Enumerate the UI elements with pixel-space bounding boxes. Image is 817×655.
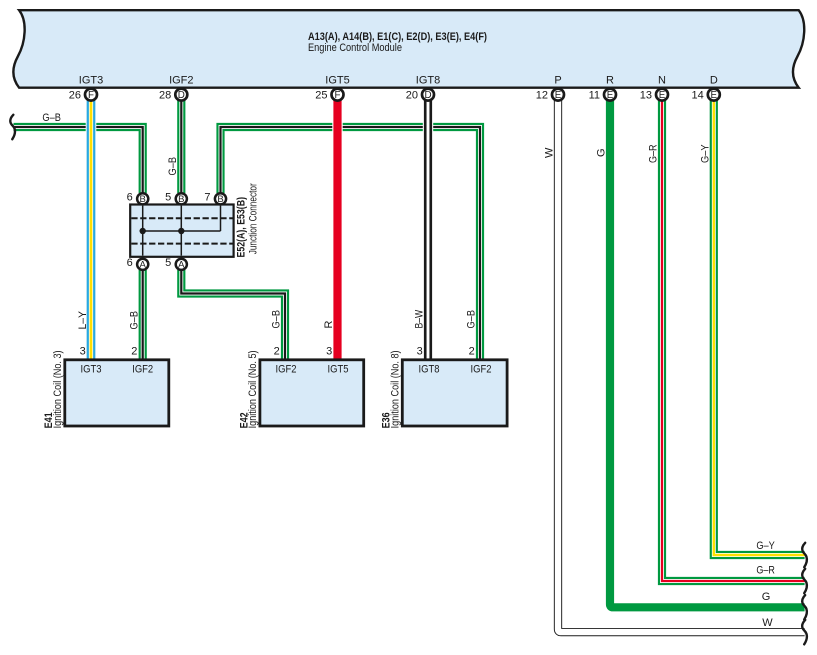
svg-text:G–B: G–B (466, 310, 478, 329)
svg-text:G: G (596, 148, 608, 157)
svg-text:IGT5: IGT5 (328, 364, 349, 376)
svg-text:14: 14 (692, 89, 704, 101)
svg-text:IGF2: IGF2 (169, 75, 193, 87)
svg-text:A: A (140, 260, 147, 271)
svg-text:E: E (555, 90, 562, 101)
svg-text:G: G (762, 591, 771, 603)
svg-text:G–R: G–R (756, 564, 775, 576)
svg-text:B–W: B–W (414, 309, 426, 328)
svg-text:28: 28 (159, 89, 171, 101)
svg-text:W: W (762, 617, 773, 629)
svg-text:2: 2 (469, 346, 475, 358)
svg-text:N: N (658, 75, 666, 87)
svg-text:E: E (607, 90, 614, 101)
svg-text:12: 12 (536, 89, 548, 101)
svg-text:A: A (178, 260, 185, 271)
svg-text:7: 7 (204, 192, 210, 204)
svg-text:Ignition Coil (No. 3): Ignition Coil (No. 3) (52, 350, 64, 428)
svg-text:Ignition Coil (No. 8): Ignition Coil (No. 8) (390, 350, 402, 428)
svg-text:11: 11 (589, 89, 600, 101)
svg-text:W: W (544, 147, 556, 158)
svg-text:G–B: G–B (167, 157, 179, 176)
svg-text:B: B (217, 194, 223, 205)
svg-text:6: 6 (127, 192, 133, 204)
svg-text:IGT8: IGT8 (419, 364, 440, 376)
svg-text:IGT8: IGT8 (416, 75, 440, 87)
svg-text:G–B: G–B (128, 311, 140, 330)
svg-text:B: B (178, 194, 184, 205)
svg-text:IGF2: IGF2 (132, 364, 153, 376)
svg-text:IGT3: IGT3 (79, 75, 103, 87)
svg-text:2: 2 (274, 346, 280, 358)
svg-text:13: 13 (640, 89, 652, 101)
svg-text:P: P (554, 75, 561, 87)
svg-text:3: 3 (326, 346, 332, 358)
svg-text:5: 5 (165, 192, 171, 204)
svg-text:G–Y: G–Y (756, 540, 775, 552)
svg-text:IGT3: IGT3 (81, 364, 102, 376)
svg-text:F: F (335, 90, 341, 101)
svg-text:R: R (606, 75, 614, 87)
svg-text:20: 20 (406, 89, 418, 101)
svg-text:2: 2 (131, 346, 137, 358)
svg-text:6: 6 (127, 257, 133, 269)
svg-text:E52(A), E53(B): E52(A), E53(B) (236, 197, 248, 258)
svg-text:D: D (710, 75, 718, 87)
svg-text:IGF2: IGF2 (471, 364, 492, 376)
svg-text:5: 5 (165, 257, 171, 269)
svg-text:IGT5: IGT5 (325, 75, 349, 87)
svg-text:Ignition Coil (No. 5): Ignition Coil (No. 5) (247, 350, 259, 428)
svg-text:25: 25 (315, 89, 327, 101)
svg-text:F: F (88, 90, 94, 101)
svg-text:D: D (424, 90, 431, 101)
svg-text:E: E (711, 90, 718, 101)
svg-text:Junction Connector: Junction Connector (248, 183, 260, 254)
svg-text:Engine Control Module: Engine Control Module (308, 42, 402, 54)
svg-text:L–Y: L–Y (77, 310, 89, 329)
svg-text:3: 3 (80, 346, 86, 358)
svg-text:IGF2: IGF2 (276, 364, 297, 376)
svg-text:G–Y: G–Y (700, 144, 712, 163)
svg-text:D: D (178, 90, 185, 101)
svg-text:E: E (659, 90, 666, 101)
svg-text:3: 3 (417, 346, 423, 358)
svg-text:B: B (140, 194, 146, 205)
svg-text:G–B: G–B (42, 112, 61, 124)
svg-text:G–R: G–R (648, 144, 660, 163)
svg-text:R: R (323, 321, 335, 329)
svg-text:G–B: G–B (271, 310, 283, 329)
svg-text:26: 26 (69, 89, 81, 101)
